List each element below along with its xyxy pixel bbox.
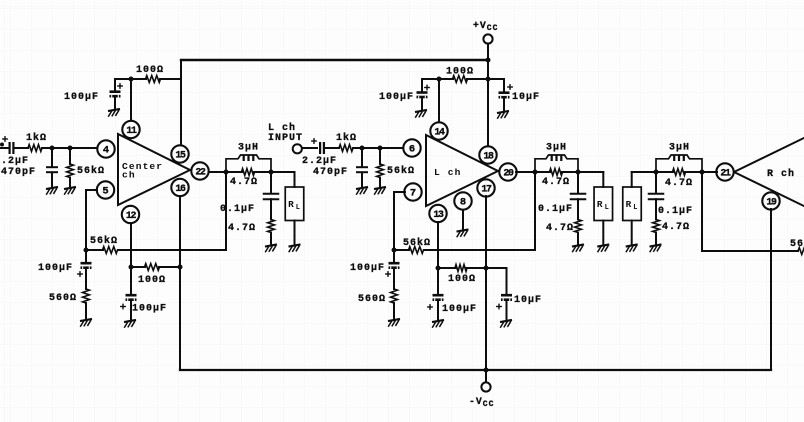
junction output B (center): [269, 170, 274, 175]
junction +Vcc rail / pin18 line: [486, 58, 491, 63]
label 0.1uF (Lch): [538, 204, 573, 215]
wire pin5 to feedback node (center): [86, 190, 97, 250]
wire 0.1uF to 4.7 (Rch): [655, 199, 657, 219]
svg-text:19: 19: [766, 197, 777, 208]
wire 10uF Lch top stub: [503, 79, 505, 91]
load RL (center): [285, 187, 304, 221]
wire input terminal to cap (Lch): [302, 147, 317, 149]
svg-text:3µH: 3µH: [546, 143, 567, 154]
plus mark 2.2uF Lch: [312, 139, 316, 143]
wire output A to 4.7 (center): [226, 171, 242, 173]
wire 470pF to ground (Lch): [361, 172, 363, 186]
inductor 3uH (Rch): [656, 155, 702, 172]
svg-text:7: 7: [410, 188, 416, 200]
ground below 10uF Lch top: [497, 111, 509, 118]
label 4.7 ohm zobel (center): [228, 223, 256, 234]
svg-text:20: 20: [503, 168, 514, 179]
wire feedback drop (center): [118, 172, 226, 250]
junction 56k node (center): [68, 146, 73, 151]
svg-text:100Ω: 100Ω: [138, 275, 166, 286]
wire pin12 down (center): [130, 223, 132, 267]
ground below pin8: [457, 229, 469, 236]
wire feedback drop (Lch): [424, 172, 535, 250]
svg-text:22: 22: [195, 167, 206, 178]
svg-text:2.2µF: 2.2µF: [0, 156, 29, 167]
wire 0.1uF stub (Lch): [577, 172, 579, 193]
pin 15: [171, 145, 188, 162]
resistor 56k ohm input (center): [67, 164, 74, 178]
wire output A to 4.7 (Lch): [535, 171, 550, 173]
resistor 4.7 ohm series (Rch): [673, 169, 686, 176]
label 4.7 ohm zobel (Rch): [662, 222, 690, 233]
wire feedback to 56k (Rch): [771, 250, 798, 252]
wire 470pF to ground (center): [51, 172, 53, 186]
svg-text:10µF: 10µF: [512, 92, 540, 103]
ground below 470pF center: [46, 187, 58, 194]
resistor 56k ohm feedback (Lch): [409, 247, 424, 254]
label 2.2uF (Lch): [302, 156, 337, 167]
label L ch: [268, 122, 296, 134]
svg-text:1kΩ: 1kΩ: [26, 132, 47, 144]
svg-text:18: 18: [483, 151, 494, 162]
wire RL to ground (Rch): [631, 221, 633, 244]
resistor 560 ohm (Lch): [391, 289, 398, 303]
svg-text:R ch: R ch: [767, 168, 795, 180]
load RL (L ch): [594, 187, 613, 221]
inductor 3uH (Lch): [535, 155, 578, 172]
ground below ripple cap Lch: [432, 320, 444, 327]
junction ripple to pin16 line (center): [178, 265, 183, 270]
svg-text:470pF: 470pF: [1, 167, 36, 178]
label 100uF (center top): [64, 92, 99, 103]
label 1k ohm (center): [26, 132, 47, 144]
svg-text:L: L: [296, 204, 300, 212]
svg-text:6: 6: [409, 144, 415, 156]
wire zobel to ground (center): [270, 233, 272, 244]
label 3uH (Lch): [546, 143, 567, 154]
wire pin21 to output net (Rch): [702, 171, 717, 173]
wire pin13 node to 100 (Lch): [438, 267, 456, 269]
wire ripple cap ground (Lch): [437, 301, 439, 319]
label 3uH (center): [238, 143, 259, 154]
capacitor 2.2uF (Lch input): [320, 142, 324, 154]
wire +Vcc terminal to rail: [487, 44, 489, 60]
label 10uF (Lch top): [512, 92, 540, 103]
svg-text:0.1µF: 0.1µF: [538, 204, 573, 215]
svg-text:100Ω: 100Ω: [136, 65, 164, 76]
op-amp R channel: [734, 136, 804, 208]
resistor 4.7 ohm series (Lch): [550, 169, 563, 176]
wire 4.7 to output B (Lch): [562, 171, 578, 173]
label 1k ohm (Lch): [336, 132, 357, 144]
op-amp L channel: [426, 135, 498, 206]
label 4.7 ohm series (center): [230, 177, 258, 188]
label 56k ohm feedback (Lch): [403, 237, 431, 249]
wire cap to 560 (center): [85, 269, 87, 289]
label INPUT: [268, 133, 303, 144]
junction feedback node (Lch): [392, 248, 397, 253]
input terminal L ch: [293, 144, 302, 153]
svg-text:560Ω: 560Ω: [49, 293, 77, 304]
wire 56k to ground (center): [69, 178, 71, 187]
svg-text:4.7Ω: 4.7Ω: [542, 177, 570, 188]
svg-text:10µF: 10µF: [514, 295, 542, 306]
wire pin7 to feedback node (Lch): [394, 192, 405, 250]
wire 100 to pin16 line (center): [159, 266, 180, 268]
resistor 100 ohm (center Vcc filter): [146, 76, 161, 83]
label 4.7 ohm series (Rch): [665, 178, 693, 189]
label 4.7 ohm zobel (Lch): [546, 223, 574, 234]
plus mark 100uF ripple center: [121, 304, 125, 308]
wire feedback drop (Rch): [702, 172, 771, 251]
resistor 4.7 ohm series (center): [242, 169, 255, 176]
label 4.7 ohm series (Lch): [542, 177, 570, 188]
svg-text:100µF: 100µF: [442, 304, 477, 315]
svg-text:100µF: 100µF: [64, 92, 99, 103]
svg-text:L ch: L ch: [434, 167, 461, 178]
svg-text:15: 15: [175, 150, 186, 161]
wire -Vcc terminal stub: [485, 370, 487, 382]
resistor 1k ohm (Lch input): [339, 145, 353, 152]
wire 0.1uF stub (Rch): [655, 172, 657, 193]
label 100 ohm (Lch top): [446, 67, 474, 78]
wire -Vcc bottom rail: [180, 369, 771, 371]
label 2.2uF (center): [0, 156, 29, 167]
wire ripple cap ground (center): [130, 301, 132, 319]
resistor 56k ohm feedback (center): [103, 247, 118, 254]
svg-text:8: 8: [460, 197, 466, 209]
wire 10uF bottom ground (Lch): [506, 301, 508, 319]
wire pin22 output (center): [209, 171, 227, 173]
capacitor 100uF (center top): [110, 90, 121, 97]
capacitor 100uF (Lch top): [417, 91, 428, 98]
svg-text:R: R: [626, 199, 632, 210]
wire pin12 node to 100 (center): [131, 266, 145, 268]
label -Vcc: [469, 396, 494, 409]
label 470pF (center): [1, 167, 36, 178]
svg-text:11: 11: [126, 125, 137, 136]
wire ripple net to 10uF (Lch): [486, 268, 507, 293]
svg-text:L: L: [605, 204, 609, 212]
svg-text:-VCC: -VCC: [469, 396, 494, 409]
wire 560 to ground (center): [85, 303, 87, 318]
label 560 ohm (Lch): [358, 294, 386, 305]
pin 11: [122, 121, 139, 138]
wire output A to 4.7 (Rch): [656, 171, 673, 173]
junction output A (Lch): [533, 170, 538, 175]
wire 470pF stub (Lch): [361, 148, 363, 167]
label 56k ohm feedback (center): [90, 235, 118, 247]
wire pin14 up: [438, 79, 440, 123]
pin 8: [454, 192, 471, 209]
plus mark 100uF center top: [118, 84, 122, 88]
svg-text:13: 13: [433, 209, 444, 220]
label 100uF (Lch top): [379, 92, 414, 103]
pin 14: [430, 122, 447, 139]
svg-text:17: 17: [481, 184, 492, 195]
op-amp center channel: [118, 134, 190, 205]
wire 0.1uF to 4.7 (center): [270, 199, 272, 219]
wire top rail corner down to pin15: [180, 60, 182, 146]
wire pin17 down to -Vcc rail: [485, 196, 487, 370]
label 100uF feedback (center): [38, 263, 73, 274]
resistor 56k ohm input (Lch): [377, 164, 384, 178]
label 100 ohm ripple (Lch): [448, 274, 476, 285]
junction +Vcc line / Lch top net: [486, 77, 491, 82]
svg-text:4.7Ω: 4.7Ω: [665, 178, 693, 189]
wire output B to RL corner (Lch): [578, 172, 603, 187]
svg-text:2.2µF: 2.2µF: [302, 156, 337, 167]
wire pin19 down to -Vcc rail: [770, 209, 772, 370]
wire pin20 output (Lch): [516, 171, 535, 173]
svg-text:56kΩ: 56kΩ: [403, 237, 431, 249]
capacitor 0.1uF (center): [263, 194, 280, 200]
label +Vcc: [473, 20, 498, 33]
node center input terminal: [0, 143, 4, 147]
wire zobel to ground (Rch): [655, 233, 657, 244]
svg-text:470pF: 470pF: [313, 167, 348, 178]
ground below RL Rch: [626, 244, 638, 251]
wire 1k to pin4 (center): [42, 147, 98, 149]
ground below RL Lch: [597, 244, 609, 251]
resistor 4.7 ohm zobel (Rch): [653, 220, 660, 233]
svg-text:12: 12: [126, 210, 137, 221]
inductor 3uH (center): [226, 155, 271, 172]
wire pin13 down (Lch): [437, 222, 439, 268]
wire 10uF Lch to ground: [503, 99, 505, 111]
svg-text:ch: ch: [122, 170, 136, 181]
wire +Vcc down to pin18: [487, 60, 489, 147]
capacitor 10uF (Lch top): [499, 91, 510, 98]
pin 4: [97, 140, 114, 157]
svg-text:INPUT: INPUT: [268, 133, 303, 144]
resistor 100 ohm ripple (center): [145, 264, 160, 271]
pin 6: [403, 139, 420, 156]
ground below 560 center: [80, 319, 92, 326]
wire 0.1uF to 4.7 (Lch): [577, 199, 579, 219]
capacitor 10uF bottom (Lch): [501, 294, 512, 301]
ground below ripple cap center: [124, 320, 136, 327]
svg-text:L: L: [633, 204, 637, 212]
junction 56k node (Lch): [378, 146, 383, 151]
wire center top 100 ohm net: [115, 78, 146, 80]
wire center input: [0, 147, 9, 149]
ground below zobel Rch: [650, 244, 662, 251]
wire RL to ground (center): [294, 221, 296, 244]
label 100 ohm (center top): [136, 65, 164, 76]
wire output B to RL corner (center): [271, 172, 295, 187]
pin 18: [479, 146, 496, 163]
capacitor 2.2uF (center input): [10, 142, 14, 154]
junction output B (Lch): [576, 170, 581, 175]
resistor 100 ohm ripple (Lch): [455, 265, 467, 272]
wire zobel to ground (Lch): [577, 233, 579, 244]
ground below 56k Lch: [374, 187, 386, 194]
label 100 ohm ripple (center): [138, 275, 166, 286]
svg-text:+VCC: +VCC: [473, 20, 498, 33]
label 10uF bottom (Lch): [514, 295, 542, 306]
wire pin11 up: [130, 79, 132, 120]
capacitor 0.1uF (Rch): [648, 194, 665, 200]
plus mark 10uF Lch top: [508, 85, 512, 89]
junction feedback node (center): [84, 248, 89, 253]
svg-text:100Ω: 100Ω: [448, 274, 476, 285]
resistor 4.7 ohm zobel (Lch): [575, 220, 582, 233]
label 56k ohm input (center): [77, 165, 105, 177]
wire feedback to node (center): [86, 249, 103, 251]
junction pin14 line / top net: [437, 77, 442, 82]
capacitor 100uF ripple (center): [126, 294, 137, 301]
wire 4.7 to output B (center): [254, 171, 271, 173]
svg-text:560Ω: 560Ω: [358, 294, 386, 305]
wire pin8 ground stub: [462, 210, 464, 229]
plus mark 100uF feedback Lch: [386, 272, 390, 276]
label 100uF ripple (center): [132, 304, 167, 315]
wire output A to RL corner (Rch): [632, 172, 656, 187]
ground below 100uF Lch top: [415, 110, 427, 117]
svg-text:R: R: [288, 199, 294, 210]
label 100uF ripple (Lch): [442, 304, 477, 315]
wire pin12 node cap stub (center): [130, 267, 132, 294]
svg-text:56kΩ: 56kΩ: [790, 238, 804, 250]
load RL (R ch): [623, 187, 642, 221]
ground below 100uF center top: [108, 109, 120, 116]
+Vcc terminal: [483, 34, 492, 43]
plus mark 100uF Lch top: [425, 85, 429, 89]
plus mark 2.2uF center: [3, 137, 7, 141]
plus mark 100uF ripple Lch: [428, 305, 432, 309]
svg-text:1kΩ: 1kΩ: [336, 132, 357, 144]
label 3uH (Rch): [669, 143, 690, 154]
wire cap to 1k (Lch): [325, 147, 339, 149]
pin 5: [97, 181, 114, 198]
wire center top 100 ohm net b: [160, 78, 181, 80]
svg-text:3µH: 3µH: [669, 143, 690, 154]
resistor 560 ohm (center): [83, 289, 90, 303]
resistor 100 ohm (Lch Vcc filter): [453, 76, 468, 83]
svg-text:5: 5: [102, 186, 108, 198]
capacitor 0.1uF (Lch): [570, 194, 587, 200]
ground below 470pF Lch: [356, 187, 368, 194]
resistor 4.7 ohm zobel (center): [268, 220, 275, 233]
wire 560 to ground (Lch): [393, 303, 395, 318]
svg-text:56kΩ: 56kΩ: [387, 165, 415, 177]
wire 100uF Lch top stub: [421, 79, 423, 91]
svg-text:R: R: [597, 199, 603, 210]
ground below 10uF bottom Lch: [500, 320, 512, 327]
svg-text:4.7Ω: 4.7Ω: [228, 223, 256, 234]
pin 16: [171, 179, 188, 196]
wire 4.7 to output B (Rch): [685, 171, 702, 173]
junction 470pF node (Lch): [360, 146, 365, 151]
junction 470pF node (center): [50, 146, 55, 151]
pin 22: [191, 162, 208, 179]
wire 56k to ground (Lch): [379, 178, 381, 187]
label 0.1uF (center): [220, 204, 255, 215]
ground below 560 Lch: [388, 319, 400, 326]
plus mark 100uF feedback center: [78, 272, 82, 276]
wire feedback cap stub (Lch): [393, 250, 395, 262]
ground below 56k center: [64, 187, 76, 194]
pin 13: [429, 205, 446, 222]
wire 1k to pin6 (Lch): [353, 147, 404, 149]
wire 0.1uF stub (center): [270, 172, 272, 193]
ground below zobel center: [265, 244, 277, 251]
junction pin12 node (center): [129, 265, 134, 270]
svg-text:100µF: 100µF: [132, 304, 167, 315]
capacitor 100uF feedback (center): [81, 262, 92, 269]
wire 100uF center top stub: [114, 79, 116, 90]
wire 56k stub top (center): [69, 148, 71, 164]
label R ch: [767, 168, 795, 180]
svg-text:100µF: 100µF: [379, 92, 414, 103]
pin 20: [499, 163, 516, 180]
svg-text:4: 4: [103, 145, 109, 157]
pin 7: [404, 183, 421, 200]
wire cap to 560 (Lch): [393, 269, 395, 289]
svg-text:16: 16: [175, 183, 186, 194]
svg-text:100µF: 100µF: [38, 263, 73, 274]
wire 56k stub top (Lch): [379, 148, 381, 164]
junction output A (Rch): [654, 170, 659, 175]
plus mark 10uF bottom Lch: [497, 304, 501, 308]
wire cap to 1k (center): [14, 147, 28, 149]
junction -Vcc tap: [484, 368, 489, 373]
wire +Vcc top rail: [181, 59, 488, 61]
resistor 1k ohm (center input): [28, 145, 42, 152]
svg-text:100Ω: 100Ω: [446, 67, 474, 78]
pin 12: [122, 206, 139, 223]
junction output B (Rch): [700, 170, 705, 175]
label 470pF (Lch): [313, 167, 348, 178]
resistor 56k ohm feedback (Rch): [798, 248, 804, 255]
svg-text:14: 14: [434, 127, 445, 138]
wire 100uF Lch to ground: [421, 98, 423, 109]
wire feedback to node (Lch): [394, 249, 409, 251]
pin 17: [477, 179, 494, 196]
label 100uF feedback (Lch): [350, 263, 385, 274]
junction output A (center): [224, 170, 229, 175]
wire 100 to pin17 line (Lch): [467, 267, 487, 269]
svg-text:21: 21: [720, 168, 731, 179]
-Vcc terminal: [481, 382, 490, 391]
junction pin13 node (Lch): [436, 266, 441, 271]
capacitor 100uF ripple (Lch): [433, 294, 444, 301]
svg-text:4.7Ω: 4.7Ω: [230, 177, 258, 188]
wire feedback cap stub (center): [85, 250, 87, 262]
svg-text:4.7Ω: 4.7Ω: [546, 223, 574, 234]
svg-text:100µF: 100µF: [350, 263, 385, 274]
label 560 ohm (center): [49, 293, 77, 304]
junction pin11 line / top net: [129, 77, 134, 82]
label 56k ohm feedback (Rch): [790, 238, 804, 250]
label 0.1uF (Rch): [658, 206, 693, 217]
svg-text:56kΩ: 56kΩ: [77, 165, 105, 177]
ground below RL center: [289, 244, 301, 251]
wire pin16 down to -Vcc rail (center): [179, 196, 181, 370]
svg-text:0.1µF: 0.1µF: [658, 206, 693, 217]
wire RL to ground (Lch): [602, 221, 604, 244]
wire 470pF stub (center): [51, 148, 53, 167]
capacitor 470pF (center): [46, 167, 58, 172]
capacitor 100uF feedback (Lch): [389, 262, 400, 269]
svg-text:56kΩ: 56kΩ: [90, 235, 118, 247]
pin 21: [716, 163, 733, 180]
svg-text:3µH: 3µH: [238, 143, 259, 154]
ground below zobel Lch: [572, 244, 584, 251]
wire 100uF center top to ground: [114, 98, 116, 109]
wire Lch top 100 ohm net: [422, 78, 453, 80]
